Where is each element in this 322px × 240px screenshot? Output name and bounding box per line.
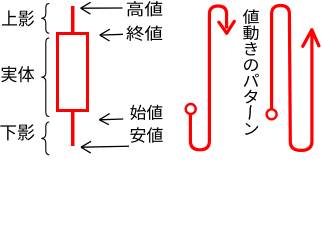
label 上影 (upper shadow)	[2, 10, 34, 26]
label 実体 (real body)	[1, 66, 34, 82]
candle body	[58, 34, 88, 111]
arrow to high	[81, 2, 123, 14]
candle upper wick	[71, 6, 75, 34]
pattern B start circle (open)	[267, 109, 277, 119]
brace upper shadow	[41, 3, 49, 33]
label 下影 (lower shadow)	[0, 124, 34, 140]
label 終値 (close)	[126, 25, 162, 40]
arrow to open	[99, 114, 123, 125]
arrow to low	[81, 141, 129, 153]
pattern B arrowhead (up, at close)	[303, 30, 319, 47]
caption 値動きのパターン (price movement patterns), vertical	[243, 9, 259, 135]
label 始値 (open)	[130, 105, 162, 120]
candle lower wick	[71, 111, 75, 146]
arrow to close	[100, 29, 123, 41]
pattern A start circle (open)	[186, 104, 196, 114]
pattern B path	[272, 6, 312, 151]
pattern A arrowhead (down, at close)	[219, 21, 234, 33]
label 安値 (low)	[130, 127, 162, 143]
brace real body	[41, 38, 49, 117]
label 高値 (high)	[127, 1, 162, 16]
pattern A path	[190, 6, 226, 150]
brace lower shadow	[41, 122, 49, 155]
